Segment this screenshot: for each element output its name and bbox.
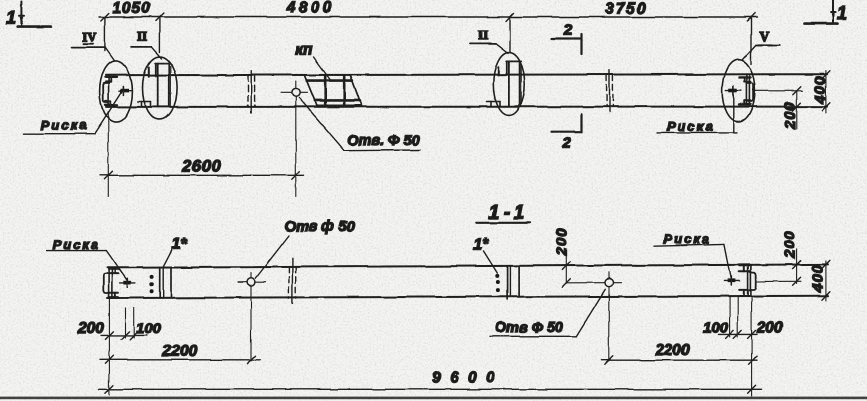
hole 1 (section) circle xyxy=(247,278,255,286)
tick 2200 right a xyxy=(605,356,613,364)
right end plate (section, double line) xyxy=(748,266,751,296)
weld joint 2 solid line xyxy=(609,70,611,112)
section mark 1 (top-left) xyxy=(17,2,51,27)
left end top flange detail xyxy=(106,77,118,82)
right end riska mark xyxy=(726,86,741,95)
mid-level extension line (right of plan) xyxy=(754,90,803,92)
extension x=125 (short) xyxy=(124,308,126,338)
tick at x=751.3 xyxy=(747,13,755,21)
detail label IV xyxy=(72,29,115,60)
tick 2200 left b xyxy=(247,356,255,364)
left end C-bracket (section) xyxy=(103,274,108,293)
weld joint 1 solid line xyxy=(250,71,252,113)
tick 200 bottom xyxy=(793,103,801,111)
detail oval V xyxy=(722,60,755,122)
extension right end down (long) xyxy=(751,297,753,397)
channel stub tick (left II detail) xyxy=(148,67,150,76)
right end bottom flange (section) xyxy=(739,290,750,296)
dim 200 vertical (section right) xyxy=(796,249,798,283)
hole Otv50 (plan) circle xyxy=(292,88,300,96)
bottom step (left II detail) xyxy=(138,102,151,107)
detail oval II (left) xyxy=(143,57,178,120)
short dim line left (200/100) xyxy=(101,334,147,336)
tick 9600 right xyxy=(748,385,756,393)
right end C-bracket (section) xyxy=(751,273,756,290)
extension from 200 dim to hole 2 xyxy=(566,282,605,284)
detail oval II (middle) xyxy=(493,53,524,116)
top dimension line xyxy=(99,16,757,18)
short dim line right (100/200) xyxy=(718,333,757,335)
hole 1 (section) crosshair xyxy=(238,281,266,283)
right end top flange detail xyxy=(739,77,751,81)
ticks right 100/200 xyxy=(726,330,734,338)
beam bottom edge (plan view) xyxy=(106,106,827,108)
detail label II (middle) xyxy=(470,28,508,54)
Otv F50 leader (top view) xyxy=(299,98,420,151)
Otv f50 leader (bottom left) xyxy=(256,236,290,279)
dim line 2200 (left) xyxy=(100,359,260,361)
tick 200 top xyxy=(793,87,801,95)
hole 1 extension down xyxy=(250,294,252,362)
tick 200 right top xyxy=(793,261,801,269)
ticks left 200/100 xyxy=(105,331,113,339)
left end riska mark xyxy=(119,87,132,95)
left end bottom flange detail xyxy=(106,101,118,105)
tick at x=510 xyxy=(506,13,514,21)
left end bottom flange (section) xyxy=(109,293,119,297)
weld seam lines (middle) xyxy=(507,266,509,299)
right riska mark (section) xyxy=(724,276,739,285)
kp plate (hatched parallelogram) xyxy=(305,75,362,105)
dim line 200 vertical (plan right) xyxy=(796,91,798,129)
dim 400 vertical (section right) xyxy=(825,261,827,301)
riska leader (left) xyxy=(95,92,122,134)
tick 2200 left a xyxy=(105,356,113,364)
tick 9600 left xyxy=(105,385,113,393)
right end bottom flange detail xyxy=(739,101,751,105)
weld dots (left) xyxy=(150,275,154,279)
channel section (left II detail) xyxy=(155,63,170,106)
weld joint 2 dashed lines xyxy=(606,75,608,107)
leader 1* (left) xyxy=(163,250,172,267)
tick 2600 right xyxy=(292,171,300,179)
left end plate (section) xyxy=(109,269,112,298)
riska leader (bottom right) xyxy=(724,244,731,279)
hole 2 (section) crosshair xyxy=(605,282,621,284)
hole extension line down to 2600 dim xyxy=(295,106,297,197)
dim line 9600 xyxy=(99,388,762,390)
channel section (middle II detail) xyxy=(506,61,521,106)
mid dashed joint solid line xyxy=(291,259,293,304)
Otv F50 leader (bottom right) xyxy=(576,289,605,336)
mid-level extension (right of section) xyxy=(756,280,801,282)
channel stub tick (middle II detail) xyxy=(497,67,499,75)
left end top flange (section) xyxy=(109,269,119,273)
detail label II (left) xyxy=(131,29,161,59)
tick at x=104.8 xyxy=(101,13,109,21)
tick 200 mid bottom xyxy=(562,279,570,287)
tick at x=159.4 xyxy=(155,13,163,21)
extension line left (x=104.8) xyxy=(104,17,106,51)
weld dots (middle) xyxy=(495,274,499,278)
beam top edge (section 1-1) xyxy=(107,264,828,267)
section mark 2 (top) xyxy=(551,34,582,54)
tick 2600 left xyxy=(104,171,112,179)
extension x=133.7 (short) xyxy=(133,308,135,338)
leader 1* (right) xyxy=(484,251,498,273)
right end top flange (section) xyxy=(739,266,750,272)
beam right end plate (double line) xyxy=(746,76,749,106)
tick 400 right bottom xyxy=(822,292,830,300)
left riska mark (section) xyxy=(120,278,135,287)
section mark 1 (top-right) xyxy=(805,0,838,24)
kp leader xyxy=(314,57,331,80)
bottom step (middle II detail) xyxy=(487,102,500,107)
dim line 2200 (right) xyxy=(601,359,757,361)
tick 400 right top xyxy=(822,260,830,268)
tick 200 right bottom xyxy=(793,277,801,285)
riska leader (bottom left) xyxy=(106,251,127,281)
riska leader (right, vertical) xyxy=(733,95,735,132)
detail label V (right) xyxy=(743,29,780,60)
detail oval IV xyxy=(100,61,133,122)
extension beam left end down (long) xyxy=(108,298,110,395)
section mark 2 (bottom) xyxy=(551,114,582,132)
hole Otv50 (plan) crosshair xyxy=(281,91,308,93)
beam bottom edge (section 1-1) xyxy=(107,296,828,298)
weld seam lines (left) xyxy=(159,268,161,298)
tick 400 bottom xyxy=(822,103,830,111)
extension x=729.6 (short, right) xyxy=(729,297,731,337)
dim line 400 vertical (plan right) xyxy=(825,71,827,114)
dim line 2600 xyxy=(100,174,304,176)
weld joint 1 dashed lines xyxy=(247,75,249,107)
extension line x=510 xyxy=(509,17,511,53)
extension from left beam end down xyxy=(107,112,109,197)
extension x=737.7 (short, right) xyxy=(737,297,739,337)
left end C-bracket xyxy=(103,83,108,102)
extension line x=751.3 xyxy=(750,17,752,64)
tick 400 top xyxy=(822,71,830,79)
dim 200 mid vertical line xyxy=(565,253,567,284)
scan edge at bottom xyxy=(0,397,867,400)
beam top edge (plan view) xyxy=(106,74,827,75)
hole 2 extension down xyxy=(608,295,610,361)
hole 2 (section) circle xyxy=(605,279,613,287)
right end C-bracket xyxy=(748,83,753,102)
tick 2200 right b xyxy=(749,356,757,364)
beam left end plate xyxy=(108,75,110,107)
extension line x=159.4 xyxy=(158,17,160,52)
mid dashed joint dashes xyxy=(288,267,290,298)
tick 200 mid top xyxy=(562,262,570,270)
